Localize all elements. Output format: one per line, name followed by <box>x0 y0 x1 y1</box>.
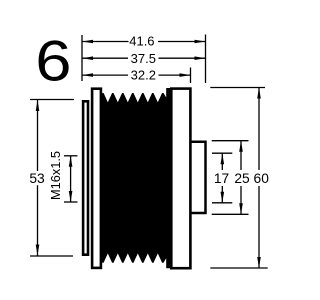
svg-text:37.5: 37.5 <box>131 51 156 66</box>
svg-text:53: 53 <box>29 171 45 186</box>
svg-text:M16x1.5: M16x1.5 <box>48 151 63 200</box>
svg-text:32.2: 32.2 <box>131 67 156 82</box>
svg-text:60: 60 <box>254 171 270 186</box>
svg-text:17: 17 <box>214 171 229 186</box>
svg-text:41.6: 41.6 <box>129 33 154 48</box>
svg-text:6: 6 <box>35 29 71 93</box>
svg-text:25: 25 <box>234 171 250 186</box>
